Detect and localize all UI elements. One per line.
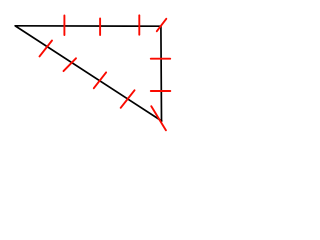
- tick 1 on side AC: [40, 41, 53, 57]
- tick 4 on side AC: [121, 90, 135, 108]
- tick 3 on side AC: [94, 72, 106, 88]
- side AB (top edge): [15, 25, 161, 27]
- side AC (hypotenuse): [16, 26, 162, 121]
- tick 3 on side AB: [138, 15, 140, 34]
- side BC (right edge): [160, 26, 163, 121]
- tick 1 on side AB: [63, 16, 65, 36]
- tick 2 on side AB: [99, 19, 101, 36]
- tick 2 on side BC: [151, 90, 171, 92]
- slanted tick at vertex B: [157, 19, 167, 31]
- long slanted tick at vertex C: [151, 106, 166, 130]
- tick 2 on side AC: [64, 58, 77, 71]
- tick 1 on side BC: [151, 58, 170, 60]
